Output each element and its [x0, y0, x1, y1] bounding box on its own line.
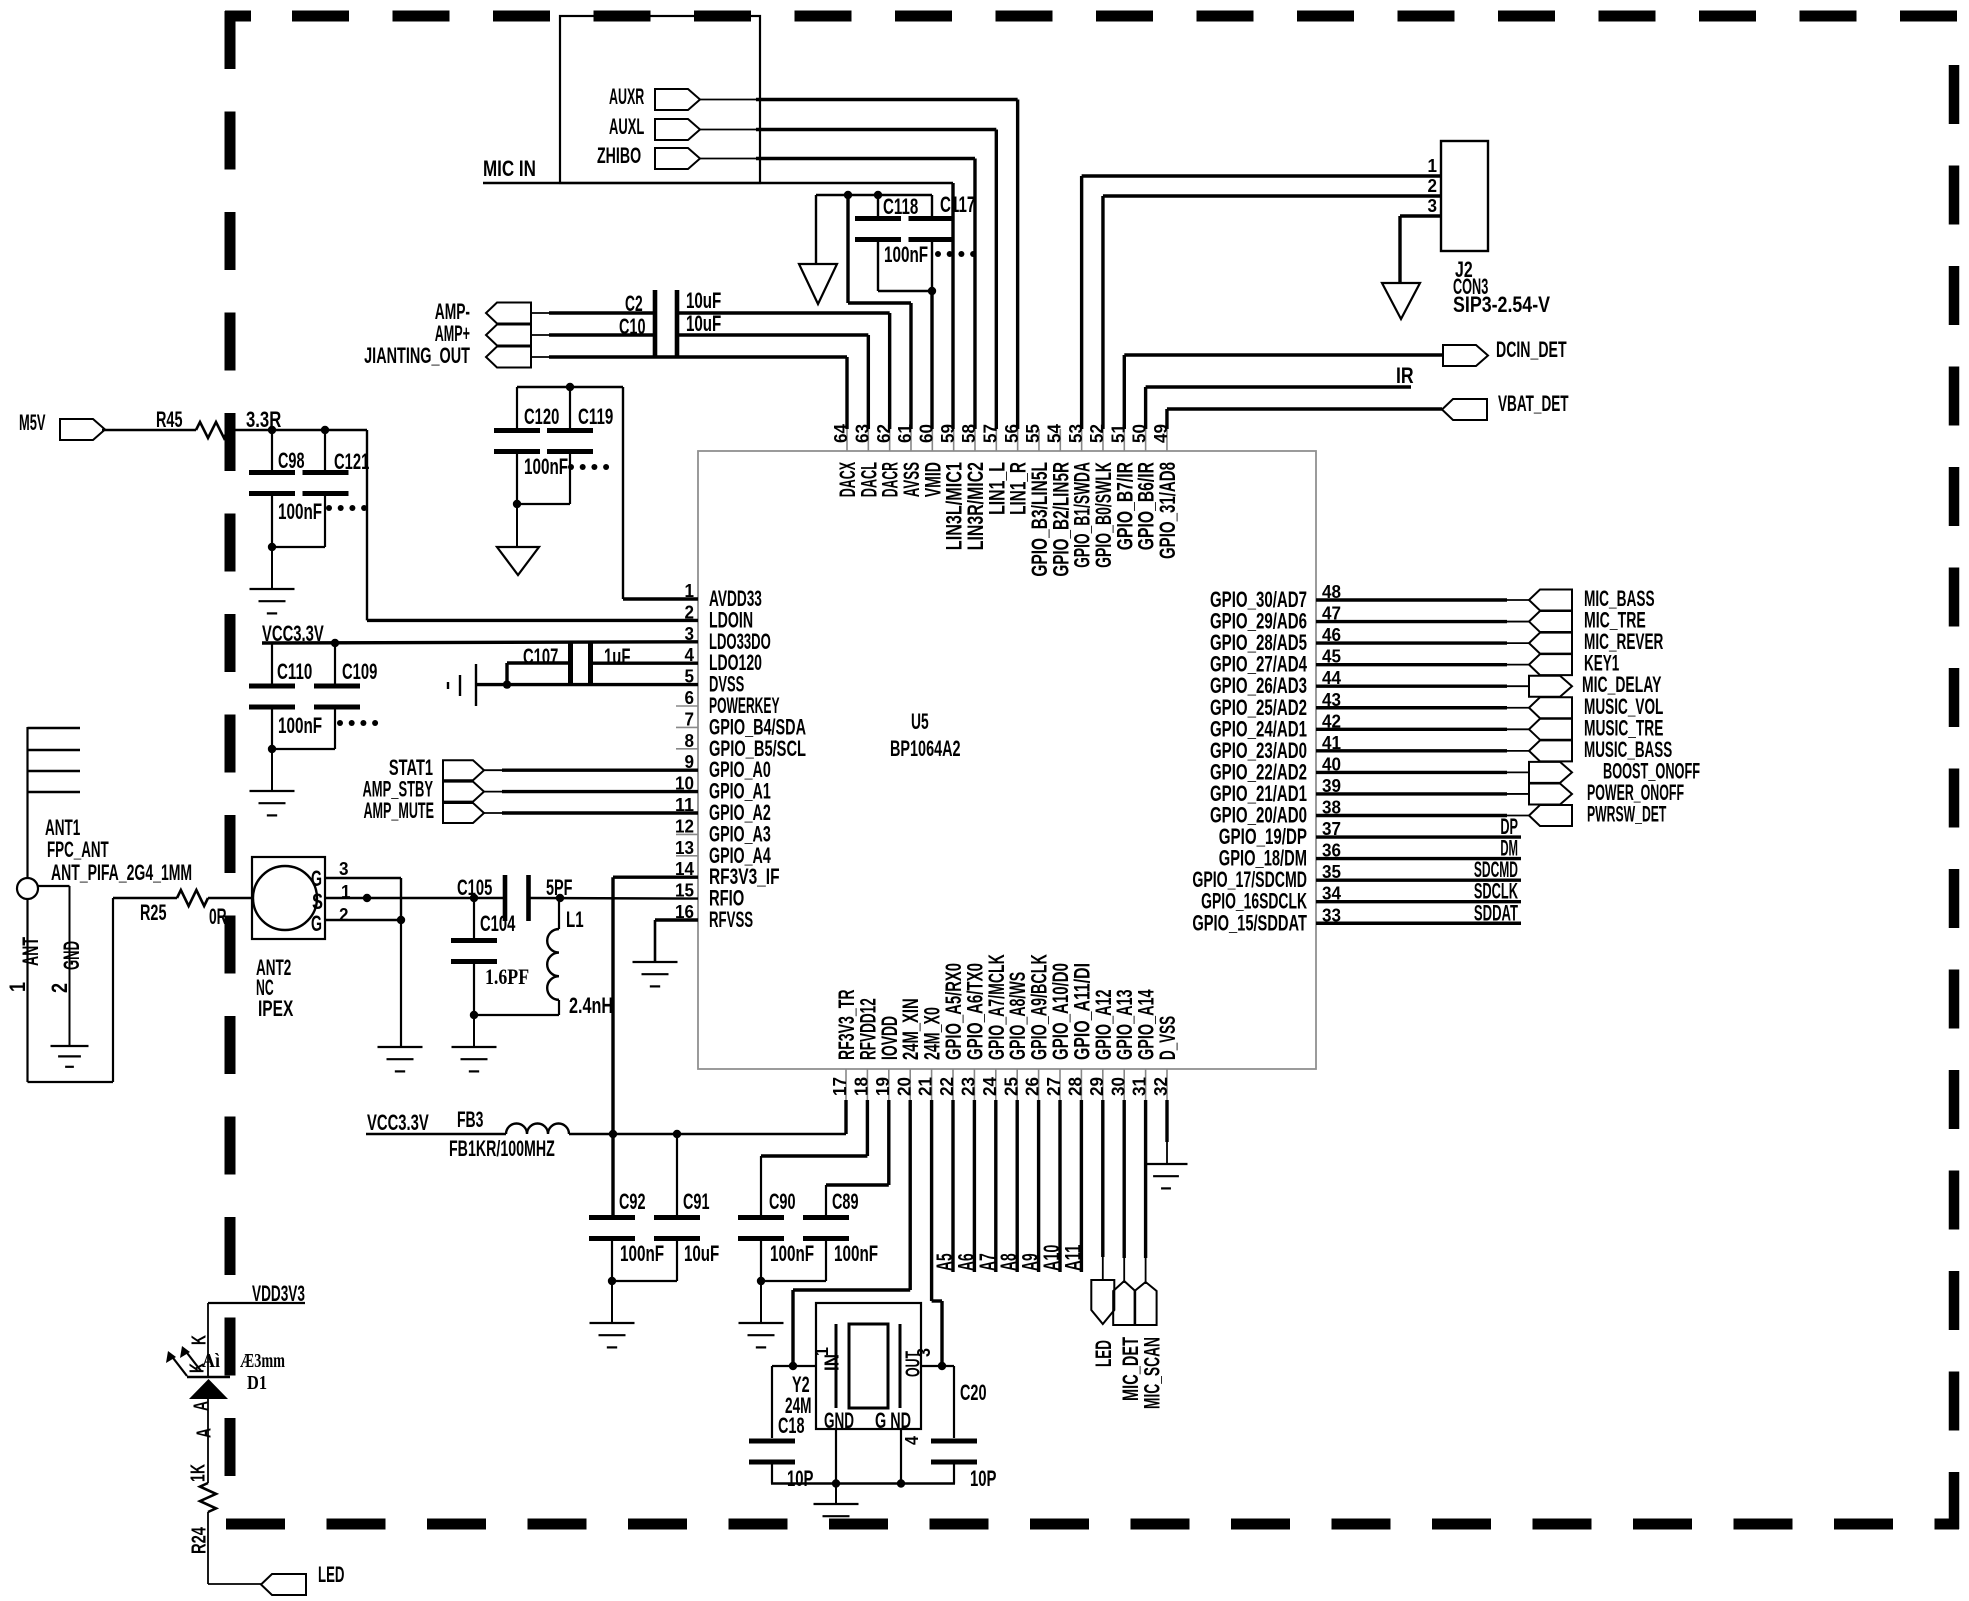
svg-text:A11: A11: [1060, 1245, 1085, 1271]
svg-text:U5: U5: [911, 709, 929, 734]
svg-text:26: 26: [1023, 1077, 1043, 1096]
svg-text:1K: 1K: [188, 1464, 210, 1482]
svg-text:C107: C107: [523, 644, 558, 669]
svg-text:4: 4: [902, 1436, 922, 1445]
svg-text:24: 24: [980, 1077, 1000, 1096]
svg-text:1.6PF: 1.6PF: [485, 964, 529, 989]
svg-text:10uF: 10uF: [686, 311, 721, 336]
svg-text:100nF: 100nF: [524, 454, 568, 479]
svg-text:7: 7: [685, 709, 695, 729]
svg-text:32: 32: [1151, 1077, 1171, 1096]
svg-text:D1: D1: [247, 1372, 267, 1394]
svg-text:VCC3.3V: VCC3.3V: [367, 1110, 429, 1135]
svg-text:100nF: 100nF: [770, 1241, 814, 1266]
svg-text:LED: LED: [1091, 1340, 1116, 1367]
svg-text:IPEX: IPEX: [258, 996, 294, 1021]
svg-text:FPC_ANT: FPC_ANT: [47, 837, 109, 862]
svg-text:OUT: OUT: [903, 1351, 925, 1377]
svg-text:2: 2: [339, 905, 349, 925]
svg-text:L1: L1: [566, 907, 584, 932]
svg-text:Aì: Aì: [202, 1350, 220, 1372]
svg-text:100nF: 100nF: [884, 242, 928, 267]
svg-text:C89: C89: [832, 1189, 858, 1214]
svg-text:3: 3: [339, 859, 349, 879]
svg-text:G: G: [311, 911, 322, 936]
svg-text:C109: C109: [342, 659, 377, 684]
svg-text:SIP3-2.54-V: SIP3-2.54-V: [1453, 292, 1550, 317]
svg-text:C18: C18: [778, 1413, 804, 1438]
svg-text:100nF: 100nF: [620, 1241, 664, 1266]
svg-text:C91: C91: [683, 1189, 709, 1214]
svg-text:C117: C117: [940, 192, 975, 217]
svg-text:GND: GND: [824, 1408, 854, 1433]
svg-text:BP1064A2: BP1064A2: [890, 736, 961, 761]
svg-text:R45: R45: [156, 407, 182, 432]
svg-text:2.4nH: 2.4nH: [569, 993, 613, 1018]
svg-text:25: 25: [1001, 1077, 1021, 1096]
svg-text:AUXR: AUXR: [609, 84, 644, 109]
svg-text:D_VSS: D_VSS: [1155, 1016, 1180, 1060]
svg-text:10uF: 10uF: [686, 288, 721, 313]
svg-text:IR: IR: [1396, 363, 1414, 388]
svg-text:C110: C110: [277, 659, 312, 684]
svg-text:1: 1: [5, 982, 30, 992]
svg-text:20: 20: [894, 1077, 914, 1096]
svg-text:2: 2: [1428, 176, 1438, 196]
svg-text:FB1KR/100MHZ: FB1KR/100MHZ: [449, 1136, 555, 1161]
svg-text:RFVSS: RFVSS: [709, 907, 753, 932]
svg-text:AUXL: AUXL: [609, 114, 644, 139]
svg-text:30: 30: [1108, 1077, 1128, 1096]
svg-text:C92: C92: [619, 1189, 645, 1214]
svg-text:C118: C118: [883, 194, 918, 219]
svg-text:C104: C104: [480, 911, 516, 936]
svg-text:AMP_MUTE: AMP_MUTE: [363, 798, 434, 823]
svg-text:6: 6: [685, 688, 695, 708]
svg-text:C10: C10: [619, 314, 645, 339]
svg-text:29: 29: [1087, 1077, 1107, 1096]
svg-text:C2: C2: [625, 291, 643, 316]
svg-text:FB3: FB3: [457, 1107, 483, 1132]
svg-text:C121: C121: [334, 449, 369, 474]
svg-text:100nF: 100nF: [278, 499, 322, 524]
svg-text:C119: C119: [578, 404, 613, 429]
svg-text:MIC_SCAN: MIC_SCAN: [1140, 1337, 1165, 1409]
svg-text:GPIO_31/AD8: GPIO_31/AD8: [1155, 462, 1180, 559]
svg-text:2: 2: [47, 983, 72, 993]
svg-text:13: 13: [675, 838, 694, 858]
svg-text:DCIN_DET: DCIN_DET: [1496, 337, 1567, 362]
svg-text:R24: R24: [189, 1526, 211, 1554]
svg-text:10P: 10P: [787, 1466, 813, 1491]
svg-text:C98: C98: [278, 448, 304, 473]
svg-text:Æ3mm: Æ3mm: [240, 1350, 285, 1372]
svg-text:1: 1: [1428, 156, 1438, 176]
svg-text:JIANTING_OUT: JIANTING_OUT: [364, 343, 470, 368]
svg-text:C120: C120: [524, 404, 559, 429]
svg-text:100nF: 100nF: [278, 713, 322, 738]
svg-text:3: 3: [1428, 196, 1438, 216]
svg-text:0R: 0R: [209, 904, 227, 929]
svg-text:8: 8: [685, 731, 695, 751]
svg-text:C105: C105: [457, 875, 492, 900]
svg-text:22: 22: [937, 1077, 957, 1096]
svg-text:23: 23: [959, 1077, 979, 1096]
svg-text:54: 54: [1044, 424, 1064, 443]
svg-text:ZHIBO: ZHIBO: [597, 143, 641, 168]
svg-text:R25: R25: [140, 900, 166, 925]
svg-text:C20: C20: [960, 1380, 986, 1405]
svg-text:C90: C90: [769, 1189, 795, 1214]
svg-text:MIC IN: MIC IN: [483, 156, 536, 181]
svg-text:ANT_PIFA_2G4_1MM: ANT_PIFA_2G4_1MM: [51, 860, 192, 885]
svg-text:SDDAT: SDDAT: [1474, 900, 1518, 925]
svg-text:10uF: 10uF: [684, 1241, 719, 1266]
svg-text:G: G: [311, 866, 322, 891]
svg-text:19: 19: [873, 1077, 893, 1096]
svg-text:10P: 10P: [970, 1466, 996, 1491]
svg-text:31: 31: [1130, 1077, 1150, 1096]
svg-text:12: 12: [675, 816, 694, 836]
svg-text:28: 28: [1066, 1077, 1086, 1096]
svg-text:A: A: [194, 1428, 216, 1438]
svg-text:17: 17: [830, 1077, 850, 1096]
svg-text:IN: IN: [822, 1354, 844, 1371]
svg-text:GND: GND: [59, 941, 84, 970]
svg-text:LED: LED: [318, 1562, 344, 1587]
svg-text:GPIO_15/SDDAT: GPIO_15/SDDAT: [1192, 910, 1307, 935]
svg-text:ANT: ANT: [18, 937, 43, 966]
svg-text:A: A: [191, 1401, 213, 1411]
svg-text:M5V: M5V: [19, 410, 46, 435]
svg-text:1uF: 1uF: [604, 644, 630, 669]
svg-text:59: 59: [938, 424, 958, 443]
svg-text:K: K: [189, 1335, 211, 1345]
svg-text:55: 55: [1023, 424, 1043, 443]
svg-text:G ND: G ND: [875, 1408, 911, 1433]
svg-text:100nF: 100nF: [834, 1241, 878, 1266]
svg-text:PWRSW_DET: PWRSW_DET: [1587, 802, 1667, 827]
svg-text:18: 18: [852, 1077, 872, 1096]
svg-text:VBAT_DET: VBAT_DET: [1498, 391, 1569, 416]
svg-text:21: 21: [916, 1077, 936, 1096]
svg-text:27: 27: [1044, 1077, 1064, 1096]
svg-text:3.3R: 3.3R: [246, 407, 281, 432]
